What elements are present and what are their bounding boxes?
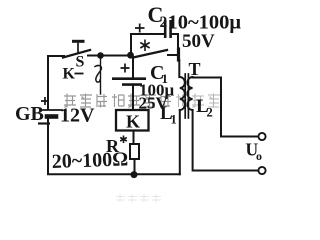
svg-text:K: K — [63, 66, 76, 83]
svg-text:GB: GB — [15, 103, 44, 125]
svg-text:12V: 12V — [60, 105, 95, 127]
svg-text:50V: 50V — [182, 31, 215, 52]
svg-text:2: 2 — [160, 14, 168, 31]
svg-text:T: T — [189, 59, 201, 79]
svg-text:20~100Ω: 20~100Ω — [51, 148, 128, 173]
svg-text:S: S — [76, 54, 85, 71]
svg-text:o: o — [256, 149, 262, 163]
svg-text:1: 1 — [171, 113, 177, 127]
svg-text:K: K — [126, 112, 140, 132]
svg-text:2: 2 — [207, 106, 213, 120]
